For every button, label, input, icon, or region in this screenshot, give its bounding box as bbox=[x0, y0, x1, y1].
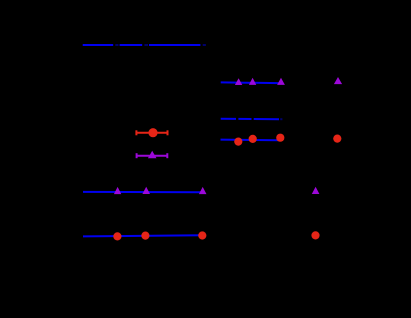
data point C4 (red circle) bbox=[234, 138, 242, 146]
data point T2 (purple triangle) bbox=[142, 187, 150, 194]
errorbar E1 (red, horizontal) bbox=[136, 130, 167, 135]
data point T3 (purple triangle) bbox=[199, 187, 207, 194]
data point T1 (purple triangle) bbox=[114, 187, 121, 194]
data point C1 (red circle) bbox=[113, 232, 121, 240]
fit line L3 (solid, bottom-left, circles series) bbox=[83, 235, 203, 236]
data point T5 (purple triangle) bbox=[249, 78, 256, 85]
errorbar E2 (purple, horizontal) bbox=[137, 153, 168, 158]
outlier point C7 (red circle, mid-right) bbox=[333, 135, 341, 143]
fit line L6 (solid, mid-right, circles series) bbox=[221, 139, 279, 142]
data point P1 (red circle) bbox=[148, 128, 157, 137]
outlier point T7 (purple triangle, top-right) bbox=[334, 77, 342, 84]
fit line L4 (solid, top-right, triangles series) bbox=[221, 81, 279, 84]
data point T6 (purple triangle) bbox=[277, 78, 285, 85]
fit line L1 (dash-dot, top-left) bbox=[83, 44, 201, 46]
data point C3 (red circle) bbox=[198, 231, 206, 239]
data point C6 (red circle) bbox=[276, 134, 284, 142]
data point P2 (purple triangle) bbox=[148, 151, 157, 158]
outlier point T8 (purple triangle, bottom-right) bbox=[312, 187, 320, 194]
outlier point C8 (red circle, bottom-right) bbox=[311, 231, 319, 239]
data point C5 (red circle) bbox=[249, 135, 257, 143]
data point C2 (red circle) bbox=[141, 232, 149, 240]
fit line L1 dots bbox=[115, 44, 206, 46]
data point T4 (purple triangle) bbox=[235, 78, 242, 85]
fit line L5 (dashed, mid-right) bbox=[221, 118, 279, 120]
fit line L5 dot bbox=[280, 118, 282, 120]
fit line L2 (solid, bottom-left, triangles series) bbox=[83, 191, 203, 193]
